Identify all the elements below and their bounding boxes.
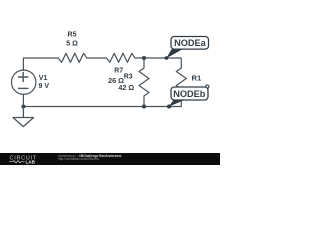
junction dot at NODEb tap (167, 105, 171, 109)
svg-text:R7: R7 (114, 68, 123, 75)
bottom wire (23, 106, 181, 108)
svg-text:9 V: 9 V (39, 83, 50, 90)
resistor R1 (vertical) (176, 68, 186, 107)
svg-text:5 Ω: 5 Ω (66, 39, 78, 48)
resistor R5 (58, 53, 87, 62)
svg-text:NODEb: NODEb (173, 89, 206, 99)
footer logo squiggle (9, 161, 25, 163)
svg-text:42 Ω: 42 Ω (118, 83, 134, 92)
svg-text:V1: V1 (39, 75, 48, 82)
svg-text:LAB: LAB (26, 160, 36, 165)
svg-text:R1: R1 (192, 74, 202, 83)
resistor R7 (106, 53, 135, 62)
footer bar (0, 153, 220, 165)
resistor R3 (vertical) (139, 58, 149, 107)
node NODEa flag box (171, 37, 209, 50)
wire top-left from V1 up and right to R5 (23, 58, 58, 71)
svg-text:http://circuitlab.com/c/9rk4cw: http://circuitlab.com/c/9rk4cw (58, 157, 100, 161)
svg-text:R3: R3 (124, 73, 133, 80)
junction dot at V1 bottom (21, 105, 25, 109)
node junction dot at R3 top (142, 56, 146, 60)
voltage source V1 (12, 70, 36, 107)
node B flag pointer (169, 100, 185, 107)
junction dot bottom of R3 (142, 105, 146, 109)
small circle at NODEb corner (206, 85, 209, 88)
ground (13, 107, 34, 127)
svg-text:R5: R5 (68, 32, 77, 39)
node A flag pointer (166, 49, 182, 58)
wire right edge down to R1 (180, 58, 182, 68)
wire between R5 and R7 (87, 57, 107, 59)
wire from R7 to right corner (135, 57, 181, 59)
node A dot (165, 56, 169, 60)
svg-text:NODEa: NODEa (174, 38, 207, 48)
node NODEb flag box (171, 87, 208, 100)
